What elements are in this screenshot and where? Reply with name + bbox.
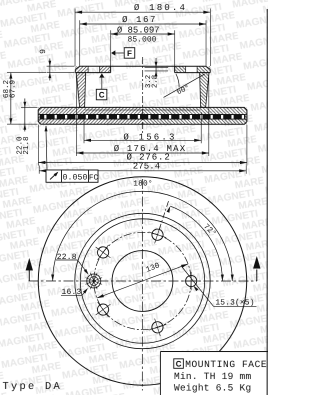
dimension D276.2 bbox=[38, 125, 247, 166]
svg-text:22.8: 22.8 bbox=[57, 253, 77, 262]
feature control frame runout 0.050 FC bbox=[45, 125, 99, 182]
dimension 130 bolt circle bbox=[97, 261, 188, 298]
center pilot circle bbox=[112, 251, 173, 312]
section arrow right bbox=[253, 256, 260, 281]
horizontal centerline / cutting plane bbox=[28, 280, 256, 282]
type label Type DA bbox=[2, 381, 62, 393]
svg-text:C: C bbox=[176, 360, 182, 369]
dimension 9 flange thickness bbox=[39, 49, 75, 81]
dimension D85.097/85.000 bore bbox=[111, 26, 175, 66]
bolt hole 1 (18deg) bbox=[146, 223, 169, 246]
datum C mounting face bbox=[96, 73, 107, 100]
bolt circle D130 centerline bbox=[94, 232, 191, 329]
page right border bbox=[266, 9, 268, 395]
svg-text:Ø 180.4: Ø 180.4 bbox=[134, 3, 187, 13]
dimension 72deg arc bbox=[159, 201, 224, 281]
hat wall right section bbox=[200, 73, 209, 108]
svg-text:Min. TH 19 mm: Min. TH 19 mm bbox=[174, 371, 251, 382]
dimension 180deg arc bbox=[51, 179, 234, 281]
svg-text:0.050: 0.050 bbox=[62, 174, 87, 183]
friction ring section (vented) bbox=[38, 107, 247, 124]
plan view circle D180.4 bbox=[75, 213, 210, 348]
svg-text:9: 9 bbox=[39, 49, 48, 54]
svg-text:2.8: 2.8 bbox=[152, 75, 160, 88]
notes box bbox=[160, 352, 268, 395]
label 15.3(x5) bolt hole diameter bbox=[182, 268, 256, 308]
bolt hole 3 (162deg) bbox=[146, 316, 169, 339]
note Weight 6.5 Kg bbox=[174, 382, 251, 393]
datum F bbox=[111, 48, 135, 59]
label 16.3 bbox=[61, 288, 88, 297]
plan view outer circle D276.2 bbox=[38, 177, 246, 385]
marker hole symbol at 270deg bbox=[85, 273, 102, 290]
dimension 275.4 bbox=[39, 161, 246, 173]
hat wall left section bbox=[76, 73, 85, 108]
svg-text:21.8: 21.8 bbox=[22, 136, 31, 155]
svg-text:Type DA: Type DA bbox=[2, 381, 62, 393]
note C MOUNTING FACE bbox=[174, 359, 267, 370]
svg-text:MOUNTING FACE: MOUNTING FACE bbox=[185, 359, 267, 370]
svg-text:180°: 180° bbox=[133, 179, 153, 188]
svg-text:Ø 167: Ø 167 bbox=[122, 15, 157, 25]
dimension D167 bbox=[80, 15, 206, 66]
svg-text:67.9: 67.9 bbox=[8, 79, 17, 98]
svg-text:FC: FC bbox=[89, 174, 99, 183]
section centerline bbox=[142, 57, 144, 133]
bolt hole 4 (234deg) bbox=[90, 297, 116, 323]
ring inner shoulder line bbox=[85, 109, 201, 111]
dimension 68.2/67.9 overall height bbox=[2, 73, 46, 125]
svg-text:85.000: 85.000 bbox=[128, 35, 157, 44]
dimension D180.4 bbox=[75, 3, 210, 66]
svg-text:F: F bbox=[127, 49, 132, 58]
bolt hole 2 (90deg) bbox=[182, 272, 200, 290]
brake disc hat flange section bbox=[75, 66, 210, 72]
dimension D156.3 bbox=[84, 112, 201, 143]
vertical centerline plan view bbox=[141, 179, 143, 390]
note Min. TH 19 mm bbox=[174, 371, 251, 382]
svg-text:C: C bbox=[99, 91, 105, 100]
svg-text:275.4: 275.4 bbox=[133, 161, 161, 171]
dimension 3.2/2.8 bbox=[145, 58, 169, 88]
bolt hole 5 (306deg) bbox=[90, 240, 116, 266]
section arrow left bbox=[26, 258, 33, 281]
dimension 22.0/21.8 disc thickness bbox=[16, 98, 38, 154]
dimension D176.4 MAX bbox=[76, 76, 208, 156]
plan view circle D167 bbox=[80, 219, 204, 343]
svg-text:Ø 85.097: Ø 85.097 bbox=[117, 26, 160, 36]
svg-text:Ø 156.3: Ø 156.3 bbox=[123, 132, 176, 142]
dimension 60deg cone angle bbox=[164, 74, 205, 98]
label 22.8 bbox=[56, 253, 89, 275]
svg-text:16.3: 16.3 bbox=[61, 288, 81, 297]
svg-text:Weight 6.5 Kg: Weight 6.5 Kg bbox=[174, 382, 251, 393]
